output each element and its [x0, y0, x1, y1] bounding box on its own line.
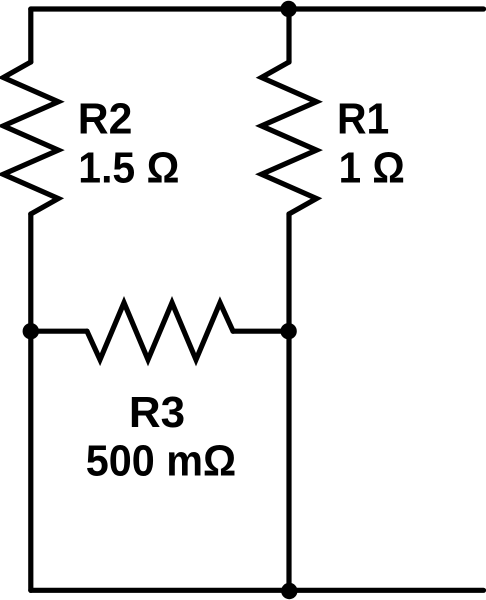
wire middle vertical lower segment: [286, 214, 291, 590]
wire left vertical lower segment: [28, 214, 33, 590]
wire R3 left lead: [31, 329, 87, 334]
node junction dot mid-left: [23, 323, 39, 339]
svg-text:500 mΩ: 500 mΩ: [86, 436, 236, 485]
node junction dot top: [280, 1, 296, 17]
resistor R3: [87, 303, 233, 360]
svg-text:R1: R1: [337, 94, 389, 143]
svg-text:R2: R2: [78, 94, 133, 143]
resistor R2: [3, 62, 58, 214]
wire top horizontal: [31, 6, 484, 11]
wire middle vertical upper segment: [286, 9, 291, 62]
node junction dot mid-right: [280, 323, 296, 339]
wire R3 right lead: [233, 329, 289, 334]
wire left vertical upper segment: [28, 9, 33, 62]
svg-text:R3: R3: [129, 388, 185, 437]
wire bottom horizontal: [31, 588, 484, 593]
node junction dot bottom: [281, 583, 297, 599]
svg-text:1 Ω: 1 Ω: [339, 144, 405, 193]
svg-text:1.5 Ω: 1.5 Ω: [78, 144, 179, 193]
resistor R1: [262, 62, 317, 214]
